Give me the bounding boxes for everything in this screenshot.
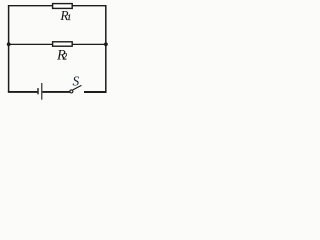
svg-text:2: 2 [63,52,68,62]
node junction left [7,42,11,46]
switch contact circle [70,90,73,93]
wire middle left segment [8,43,53,45]
resistor R2 [53,42,73,46]
svg-text:S: S [73,74,80,89]
switch lever [73,85,82,90]
wire top left segment [8,5,53,7]
wire bottom left segment [8,91,38,93]
battery long plate (positive) [41,83,43,100]
resistor R1 [53,4,73,9]
battery short plate (negative) [37,88,39,94]
wire bottom right segment [84,91,107,93]
node junction right [104,42,108,46]
wire left vertical [8,5,10,92]
wire right vertical [105,5,107,92]
wire middle right segment [72,43,106,45]
wire bottom middle segment [42,91,70,93]
wire top right segment [72,5,106,7]
svg-text:1: 1 [67,12,71,22]
